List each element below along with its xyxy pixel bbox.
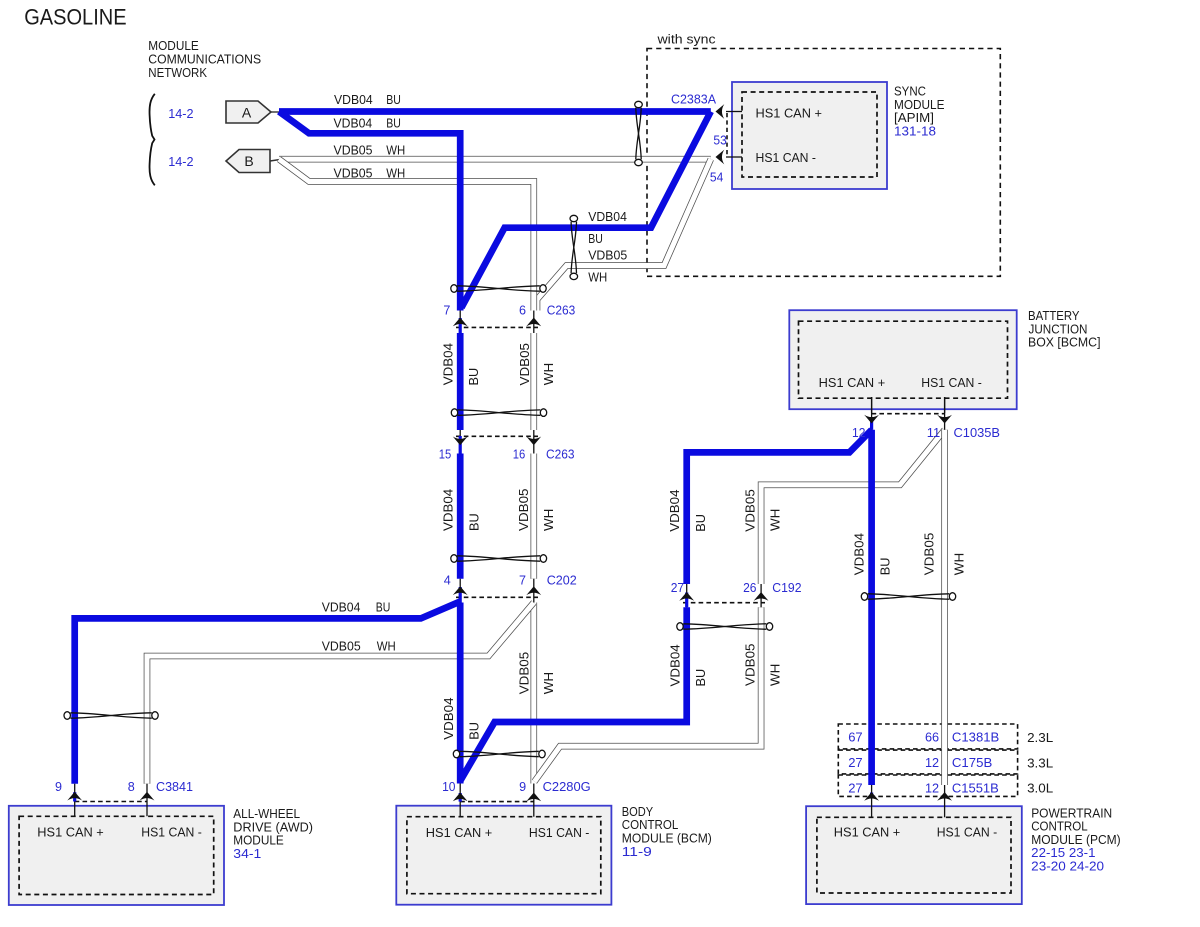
svg-text:HS1 CAN -: HS1 CAN -: [756, 151, 817, 165]
wire VDB04 BU C202 to BCM pin 10: [457, 603, 464, 784]
pin arrow C1035B pin 12: [864, 415, 879, 424]
svg-text:12: 12: [852, 425, 865, 440]
pin stem C1035B pin 12: [871, 397, 873, 430]
svg-text:4: 4: [444, 573, 451, 588]
svg-text:C202: C202: [547, 573, 577, 588]
svg-text:JUNCTION: JUNCTION: [1029, 322, 1088, 336]
svg-text:A: A: [242, 104, 252, 120]
svg-text:COMMUNICATIONS: COMMUNICATIONS: [148, 53, 261, 67]
connector line C3841: [75, 801, 147, 803]
pin stem C192 pin 27: [686, 584, 688, 607]
svg-text:12: 12: [925, 755, 939, 770]
svg-text:WH: WH: [386, 167, 405, 181]
svg-text:WH: WH: [952, 553, 967, 575]
svg-text:WH: WH: [767, 509, 782, 531]
pin arrow C263 pin 7: [453, 318, 468, 327]
svg-text:16: 16: [513, 447, 526, 462]
svg-text:14-2: 14-2: [168, 106, 193, 121]
network connector A: [226, 101, 280, 123]
svg-text:WH: WH: [541, 509, 556, 531]
pin arrow PCM pin 27: [864, 792, 879, 801]
svg-text:VDB04: VDB04: [334, 93, 373, 107]
pin stem C263 pin 16: [533, 430, 535, 454]
twisted-pair symbol below SYNC module: [570, 215, 578, 279]
pin arrow C3841 pin 9: [67, 792, 82, 801]
svg-text:34-1: 34-1: [233, 846, 261, 861]
svg-text:VDB05: VDB05: [922, 533, 937, 576]
module box ALL-WHEEL DRIVE (AWD) MODULE: [9, 806, 224, 905]
wire VDB05 WH BCM pin 9 to C192 pin 26: [535, 607, 762, 781]
pin stem PCM pin 27: [871, 785, 873, 817]
svg-text:3.0L: 3.0L: [1027, 781, 1053, 796]
with sync boundary box: [647, 49, 1000, 277]
svg-text:WH: WH: [386, 143, 405, 157]
wire VDB05 WH C263 to C263: [530, 333, 537, 430]
wire VDB05 WH from SYNC pin 54 down to C263 pin 6: [537, 159, 711, 310]
pin stub C2280G pin 10: [459, 793, 462, 802]
pin stem PCM pin 12: [944, 785, 946, 817]
connector outline C175B box: [838, 750, 1017, 774]
svg-text:with sync: with sync: [656, 33, 715, 47]
svg-text:BU: BU: [386, 93, 401, 107]
twisted-pair symbol above C263: [451, 285, 546, 293]
svg-text:67: 67: [848, 730, 863, 745]
svg-text:C263: C263: [547, 303, 576, 318]
wire VDB04 BU BJB pin 12 to PCM pin 27: [868, 430, 875, 785]
wire VDB04 BU from A to SYNC pin 53: [279, 108, 711, 115]
pin arrow C202 pin 7: [526, 586, 541, 595]
svg-text:14-2: 14-2: [168, 154, 193, 169]
svg-text:WH: WH: [588, 271, 607, 285]
pin stub PCM pin 27: [870, 793, 873, 797]
svg-text:VDB05: VDB05: [588, 249, 627, 263]
svg-text:POWERTRAIN: POWERTRAIN: [1031, 806, 1112, 820]
svg-text:VDB04: VDB04: [667, 490, 682, 532]
pin stub C263 pin 7: [459, 318, 462, 333]
svg-text:C2280G: C2280G: [543, 779, 591, 794]
svg-text:15: 15: [439, 447, 452, 462]
svg-text:VDB04: VDB04: [668, 644, 683, 686]
connector line C2280G: [460, 801, 534, 803]
svg-text:HS1 CAN -: HS1 CAN -: [529, 826, 590, 840]
svg-text:VDB05: VDB05: [334, 143, 373, 157]
wire VDB04 BU BJB pin 12 to C192 pin 27: [687, 430, 872, 584]
svg-text:7: 7: [519, 573, 526, 588]
svg-text:CONTROL: CONTROL: [1031, 820, 1088, 834]
svg-text:BU: BU: [376, 600, 391, 614]
pin stem C202 pin 4: [459, 579, 461, 603]
svg-text:C1551B: C1551B: [952, 780, 999, 795]
wire VDB04 BU C263 to C263: [457, 333, 464, 430]
wire VDB05 WH C202 to BCM pin 9: [530, 603, 537, 784]
wire VDB05 WH C263 to C202: [530, 454, 537, 579]
svg-text:BU: BU: [588, 232, 603, 246]
svg-text:VDB05: VDB05: [517, 343, 532, 386]
module box POWERTRAIN CONTROL MODULE (PCM): [806, 806, 1022, 904]
svg-text:VDB04: VDB04: [440, 343, 455, 385]
svg-text:2.3L: 2.3L: [1027, 730, 1053, 745]
pin stem C2280G pin 9: [533, 784, 535, 817]
module box BODY CONTROL MODULE (BCM): [396, 806, 611, 905]
svg-text:WH: WH: [541, 363, 556, 385]
svg-text:C192: C192: [772, 580, 801, 595]
svg-text:9: 9: [519, 779, 526, 794]
svg-text:NETWORK: NETWORK: [148, 66, 207, 80]
brace for network references: [150, 94, 155, 186]
svg-text:C2383A: C2383A: [671, 92, 716, 107]
svg-text:11: 11: [927, 425, 940, 440]
pin arrow PCM pin 12: [937, 792, 952, 801]
svg-text:HS1 CAN +: HS1 CAN +: [37, 825, 104, 839]
wire VDB05 WH C202 to AWD pin 8: [147, 603, 534, 784]
svg-text:C1381B: C1381B: [952, 730, 999, 745]
svg-text:WH: WH: [767, 664, 782, 686]
svg-text:WH: WH: [377, 640, 396, 654]
wire VDB05 WH from B down to C263 pin 6: [279, 159, 534, 310]
svg-text:WH: WH: [541, 672, 556, 694]
svg-text:HS1 CAN +: HS1 CAN +: [819, 376, 886, 390]
svg-text:HS1 CAN +: HS1 CAN +: [834, 826, 901, 840]
pin stub C263 pin 15: [459, 436, 462, 454]
svg-text:BU: BU: [693, 514, 708, 532]
svg-text:27: 27: [848, 780, 863, 795]
svg-text:HS1 CAN -: HS1 CAN -: [921, 376, 982, 390]
connector outline C1381B box: [838, 724, 1017, 749]
pin stub C3841 pin 9: [73, 792, 76, 801]
connector line C192: [683, 602, 765, 604]
svg-text:26: 26: [743, 580, 756, 595]
svg-text:HS1 CAN -: HS1 CAN -: [937, 826, 998, 840]
svg-text:9: 9: [55, 779, 62, 794]
svg-text:VDB04: VDB04: [322, 600, 361, 614]
pin arrow SYNC pin 53: [716, 104, 725, 119]
pin arrow C2280G pin 9: [526, 793, 541, 802]
pin stem C202 pin 7: [533, 579, 535, 603]
svg-text:VDB04: VDB04: [441, 698, 456, 740]
pin stub C202 pin 4: [459, 587, 462, 603]
pin stem BJB pin 12 into box: [871, 397, 873, 413]
pin stem C3841 pin 9: [74, 784, 76, 817]
twisted-pair symbol below C202: [453, 750, 545, 758]
svg-text:7: 7: [443, 303, 450, 318]
svg-text:VDB05: VDB05: [516, 489, 531, 532]
svg-text:C1035B: C1035B: [954, 425, 1001, 440]
svg-text:BU: BU: [693, 669, 708, 687]
pin arrow SYNC pin 54: [716, 150, 725, 165]
pin stem C263 pin 6: [533, 311, 535, 334]
svg-text:VDB04: VDB04: [334, 117, 373, 131]
svg-text:23-20 24-20: 23-20 24-20: [1031, 859, 1104, 874]
svg-text:ALL-WHEEL: ALL-WHEEL: [233, 807, 300, 821]
svg-text:VDB04: VDB04: [852, 533, 867, 575]
svg-text:B: B: [244, 153, 253, 169]
pin arrow C1035B pin 11: [937, 415, 952, 424]
pin stem C2280G pin 10: [459, 784, 461, 817]
svg-text:10: 10: [442, 779, 455, 794]
connector line C202: [456, 596, 538, 598]
wire VDB05 WH from B to SYNC pin 54: [279, 156, 711, 163]
svg-text:BOX [BCMC]: BOX [BCMC]: [1028, 336, 1101, 350]
svg-text:VDB05: VDB05: [743, 644, 758, 687]
svg-text:VDB04: VDB04: [441, 489, 456, 531]
wire VDB04 BU BCM pin 10 to C192 pin 27: [461, 607, 687, 780]
svg-text:6: 6: [519, 303, 526, 318]
svg-text:VDB04: VDB04: [588, 210, 627, 224]
svg-text:8: 8: [128, 779, 135, 794]
svg-text:C175B: C175B: [952, 755, 992, 770]
svg-text:HS1 CAN +: HS1 CAN +: [426, 826, 493, 840]
svg-text:MODULE: MODULE: [148, 39, 199, 53]
wire VDB04 BU from SYNC pin 53 down to C263 pin 7: [462, 112, 711, 308]
svg-text:54: 54: [710, 170, 723, 185]
svg-text:BATTERY: BATTERY: [1028, 309, 1080, 323]
connector C2383A (pins 53/54): [726, 111, 742, 113]
svg-text:CONTROL: CONTROL: [622, 818, 679, 832]
svg-text:VDB05: VDB05: [517, 652, 532, 695]
svg-text:MODULE: MODULE: [894, 98, 945, 112]
pin arrow C2280G pin 10: [453, 793, 468, 802]
svg-text:HS1 CAN +: HS1 CAN +: [756, 107, 823, 121]
pin stem C263 pin 7: [459, 311, 461, 334]
svg-text:53: 53: [713, 133, 726, 148]
svg-text:HS1 CAN -: HS1 CAN -: [141, 825, 202, 839]
svg-text:C3841: C3841: [156, 779, 193, 794]
svg-text:3.3L: 3.3L: [1027, 755, 1053, 770]
svg-text:VDB05: VDB05: [334, 167, 373, 181]
twisted-pair symbol below C1035B: [861, 593, 955, 601]
pin arrow C192 pin 26: [754, 592, 769, 601]
pin stem C192 pin 26: [760, 584, 762, 607]
svg-text:BU: BU: [466, 513, 481, 531]
module box BATTERY JUNCTION BOX [BCMC]: [789, 310, 1016, 409]
pin arrow C263 pin 15: [453, 437, 468, 446]
network connector B: [226, 150, 280, 173]
pin stub C192 pin 27: [685, 593, 688, 608]
wire VDB05 WH BJB pin 11 to C192 pin 26: [761, 430, 945, 584]
twisted-pair symbol between C263 connectors: [451, 409, 546, 417]
svg-text:BU: BU: [467, 722, 482, 740]
twisted-pair symbol below C192: [677, 623, 773, 631]
svg-text:C263: C263: [546, 447, 575, 462]
wire VDB04 BU from A down to C263 pin 7: [279, 112, 460, 311]
pin stem C263 pin 15: [459, 430, 461, 454]
connector line C1035B: [872, 413, 945, 415]
wire VDB04 BU C263 to C202: [457, 454, 464, 579]
twisted-pair symbol above AWD module: [64, 712, 158, 720]
pin arrow C3841 pin 8: [140, 792, 155, 801]
svg-text:27: 27: [848, 755, 863, 770]
svg-text:BODY: BODY: [622, 805, 654, 819]
pin stem C1035B pin 11: [944, 397, 946, 430]
svg-text:131-18: 131-18: [894, 123, 936, 138]
svg-text:BU: BU: [466, 368, 481, 386]
svg-text:66: 66: [925, 730, 939, 745]
svg-text:BU: BU: [386, 117, 401, 131]
svg-text:27: 27: [671, 580, 684, 595]
twisted-pair symbol near SYNC module: [635, 101, 643, 165]
pin arrow C202 pin 4: [453, 586, 468, 595]
svg-text:SYNC: SYNC: [894, 85, 926, 99]
pin arrow C263 pin 16: [526, 437, 541, 446]
svg-text:11-9: 11-9: [622, 844, 652, 859]
svg-text:DRIVE (AWD): DRIVE (AWD): [233, 820, 313, 834]
svg-text:VDB05: VDB05: [322, 640, 361, 654]
svg-text:GASOLINE: GASOLINE: [24, 4, 126, 29]
svg-text:12: 12: [925, 780, 939, 795]
module box SYNC MODULE [APIM]: [732, 82, 887, 189]
connector line C263 upper: [456, 326, 538, 328]
wire VDB05 WH BJB pin 11 to PCM pin 12: [941, 430, 948, 785]
connector line C263 lower: [456, 435, 538, 437]
svg-text:BU: BU: [878, 558, 893, 576]
pin arrow C192 pin 27: [679, 592, 694, 601]
wire VDB04 BU C202 to AWD pin 9: [75, 602, 461, 784]
pin stem BJB pin 11 into box: [944, 397, 946, 413]
pin stem C3841 pin 8: [146, 784, 148, 817]
connector outline C1551B box: [838, 775, 1017, 796]
pin stub C1035B pin 12: [870, 417, 873, 430]
twisted-pair symbol above C202: [451, 555, 547, 563]
svg-text:VDB05: VDB05: [743, 489, 758, 532]
pin arrow C263 pin 6: [526, 318, 541, 327]
